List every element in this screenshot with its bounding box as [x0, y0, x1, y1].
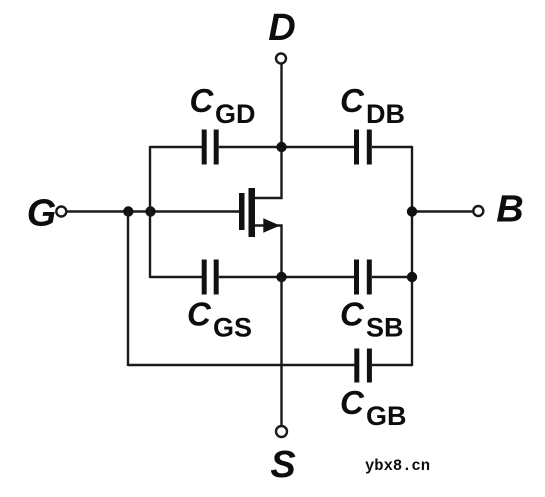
node bulk junction dot (source rail) — [407, 272, 417, 282]
node bulk junction dot (B tee) — [407, 206, 417, 216]
wire bottom rail right segment (CGB to right rail) — [372, 364, 412, 366]
svg-text:S: S — [270, 444, 295, 486]
wire source lead — [255, 226, 282, 278]
svg-text:C: C — [190, 82, 215, 119]
capacitor CGB — [354, 349, 372, 383]
svg-text:DB: DB — [366, 99, 405, 129]
transistor M1 gate bar — [239, 193, 245, 230]
svg-text:SB: SB — [366, 313, 404, 343]
transistor M1 source arrow — [263, 218, 280, 232]
wire source rail left segment (gate branch corner to CGS) — [150, 276, 202, 278]
svg-text:C: C — [340, 296, 365, 333]
capacitor CGS — [202, 260, 219, 295]
wire gate rail — [67, 210, 240, 212]
svg-text:G: G — [27, 193, 57, 235]
node gate junction dot right — [145, 206, 155, 216]
svg-text:C: C — [340, 82, 365, 119]
wire right rail — [411, 146, 413, 366]
svg-text:GD: GD — [215, 99, 256, 129]
svg-text:GB: GB — [366, 401, 407, 431]
svg-text:C: C — [340, 384, 365, 421]
wire gate branch vertical (CGD corner to CGS corner) — [149, 146, 151, 278]
capacitor CDB — [354, 130, 372, 165]
wire top rail left segment (gate corner to CGD left plate) — [150, 146, 202, 148]
transistor M1 channel bar — [249, 188, 256, 237]
wire S terminal (source node to S circle) — [280, 277, 282, 426]
svg-text:D: D — [268, 7, 295, 49]
wire top rail middle segment (CGD to CDB) — [219, 146, 354, 148]
terminal G open circle — [56, 207, 66, 217]
terminal D open circle — [276, 54, 286, 64]
node gate junction dot left — [123, 206, 133, 216]
svg-text:ybx8.cn: ybx8.cn — [365, 457, 430, 475]
node drain junction dot — [276, 142, 286, 152]
terminal S open circle — [276, 426, 287, 437]
wire D terminal to top node — [280, 64, 282, 148]
wire source rail right segment (CSB to right rail) — [372, 276, 412, 278]
wire top rail right segment (CDB to right rail) — [372, 146, 412, 148]
svg-text:GS: GS — [213, 313, 252, 343]
capacitor CGD — [202, 130, 219, 165]
wire drain lead — [255, 147, 282, 198]
wire source rail middle segment (CGS to CSB) — [219, 276, 354, 278]
terminal B open circle — [473, 206, 483, 216]
svg-text:B: B — [496, 189, 523, 231]
wire gate outer vertical (gate to CGB rail) — [127, 212, 129, 367]
capacitor CSB — [354, 260, 372, 295]
node source junction dot — [276, 272, 286, 282]
svg-text:C: C — [187, 296, 212, 333]
wire bottom rail left segment (outer gate vertical to CGB) — [128, 364, 355, 366]
wire B terminal stub — [412, 210, 473, 212]
